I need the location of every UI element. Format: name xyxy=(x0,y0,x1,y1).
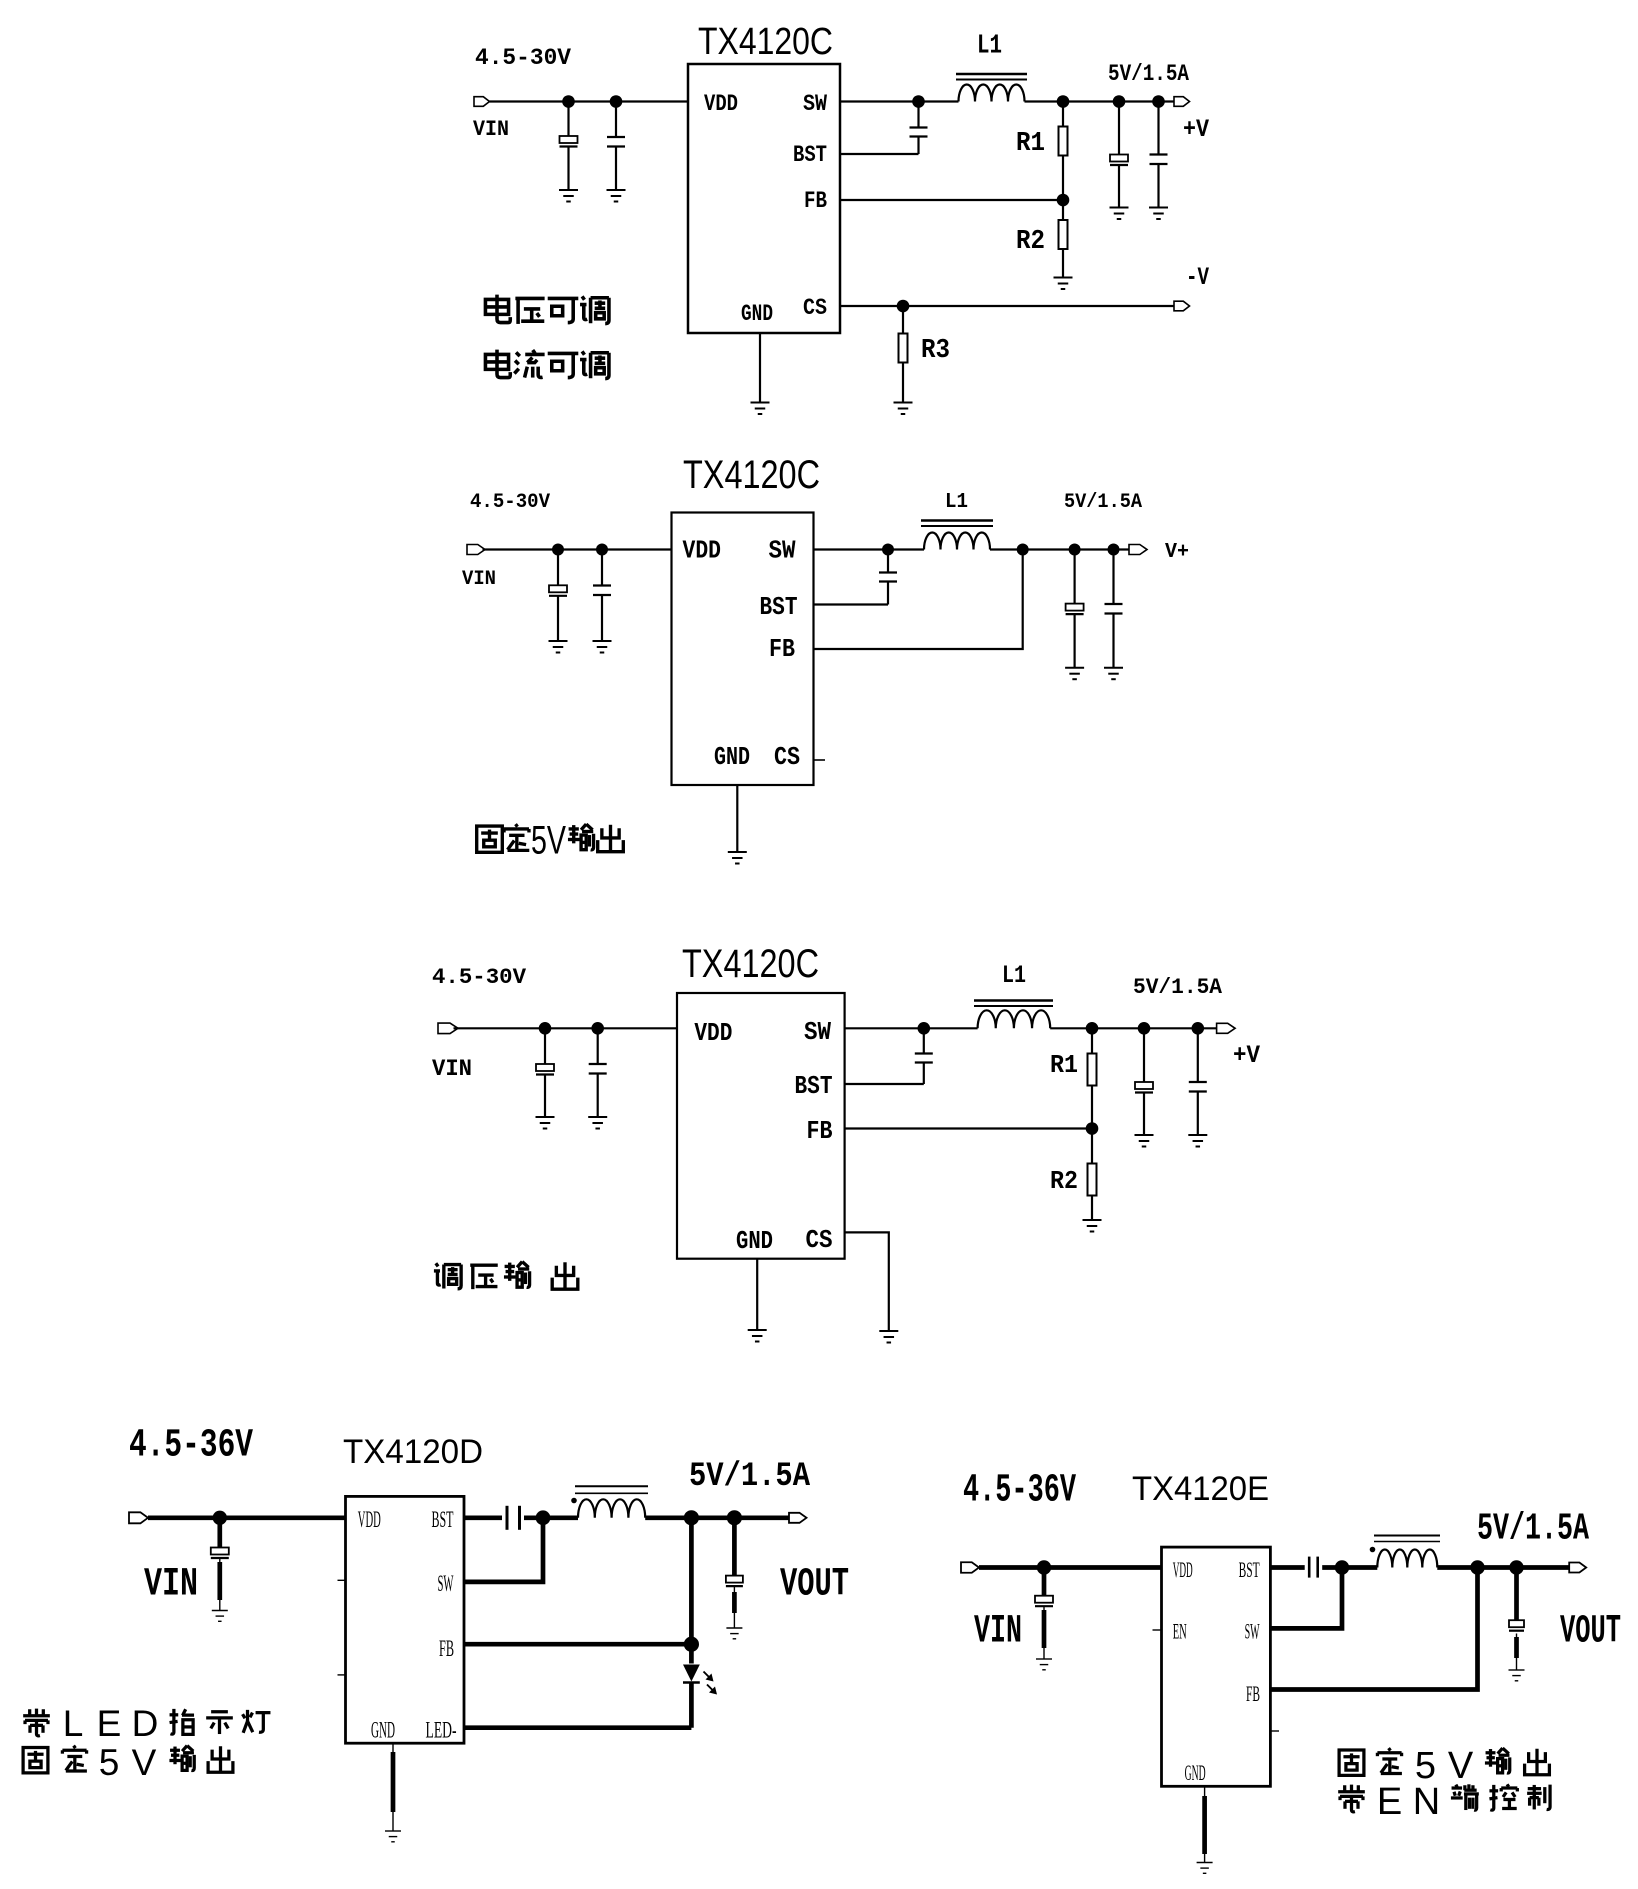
svg-text:5V: 5V xyxy=(531,819,566,863)
circuit 3: junction at R1 top xyxy=(1086,1022,1099,1035)
circuit 1: junction at SW node xyxy=(912,95,925,108)
circuit 3: caption ya xyxy=(470,1265,498,1289)
circuit 3: junction output cap 2 xyxy=(1192,1022,1205,1035)
circuit 1: caption line 1 ya xyxy=(515,298,544,324)
svg-text:VIN: VIN xyxy=(473,117,509,142)
circuit 4: GND pin wire xyxy=(392,1743,394,1831)
circuit 2: ground of output electrolytic capacitor xyxy=(1065,668,1084,680)
svg-text:L1: L1 xyxy=(945,491,968,514)
circuit 1: output port -V xyxy=(1174,301,1190,311)
svg-text:+V: +V xyxy=(1233,1041,1260,1070)
circuit 5: caption line 1 ding xyxy=(1377,1748,1401,1773)
circuit 2: GND pin wire xyxy=(736,785,738,852)
circuit 4: inductor L xyxy=(578,1499,645,1517)
svg-text:FB: FB xyxy=(804,188,827,214)
circuit 5: ground of output capacitor xyxy=(1509,1670,1525,1681)
svg-text:VOUT: VOUT xyxy=(780,1563,849,1608)
circuit 2: FB wire xyxy=(814,550,1023,650)
circuit 2: input wire xyxy=(483,548,672,550)
svg-text:D: D xyxy=(132,1703,159,1744)
circuit 4: caption line 1 shi xyxy=(206,1712,233,1734)
circuit 4: junction output cap xyxy=(727,1510,742,1525)
circuit 4: caption line 1 dai xyxy=(23,1709,50,1736)
svg-text:5V/1.5A: 5V/1.5A xyxy=(1477,1508,1589,1551)
circuit 5: caption line 1 gu xyxy=(1339,1750,1364,1775)
circuit 5: junction at SW node xyxy=(1335,1560,1349,1574)
circuit 1: ground of R3 xyxy=(894,403,913,415)
svg-text:TX4120C: TX4120C xyxy=(698,21,833,63)
svg-text:FB: FB xyxy=(1246,1681,1260,1706)
svg-text:GND: GND xyxy=(1185,1760,1206,1785)
svg-text:L1: L1 xyxy=(1002,961,1026,990)
circuit 4: caption line 1 deng xyxy=(243,1710,271,1733)
svg-text:FB: FB xyxy=(807,1116,833,1146)
circuit 1: resistor R1 xyxy=(1062,102,1064,127)
circuit 5: wire cap to SW junction xyxy=(1322,1565,1342,1570)
circuit 4: caption line 2 ding xyxy=(62,1746,86,1771)
circuit 5: ground of GND pin xyxy=(1197,1863,1213,1874)
circuit 3: junction FB / R1 / R2 xyxy=(1086,1122,1099,1135)
circuit 2: input electrolytic capacitor xyxy=(557,550,559,586)
circuit 3: output ceramic capacitor xyxy=(1197,1028,1199,1082)
circuit 1: ground of GND pin xyxy=(751,403,770,415)
svg-text:VIN: VIN xyxy=(432,1056,472,1082)
circuit 1: junction on input wire 2 xyxy=(610,95,623,108)
circuit 3: inductor L1 core lines xyxy=(974,999,1053,1001)
svg-text:LED-: LED- xyxy=(426,1718,457,1743)
circuit 2: CS pin stub xyxy=(814,759,826,761)
svg-text:4.5-30V: 4.5-30V xyxy=(432,965,527,990)
circuit 1: junction at output cap 2 xyxy=(1152,95,1165,108)
circuit 1: junction at R1 top xyxy=(1057,95,1070,108)
circuit 5: output electrolytic capacitor xyxy=(1514,1568,1519,1621)
circuit 3: input electrolytic capacitor xyxy=(544,1028,546,1064)
circuit 4: ground of input capacitor xyxy=(212,1611,228,1622)
circuit 2: junction input 2 xyxy=(596,544,608,556)
svg-text:4.5-30V: 4.5-30V xyxy=(475,45,571,71)
circuit 5: inductor polarity dot xyxy=(1370,1547,1376,1553)
circuit 3: inductor L1 xyxy=(978,1010,1051,1028)
circuit 5: GND pin wire xyxy=(1204,1786,1206,1862)
circuit 3: junction at SW node xyxy=(918,1022,931,1035)
circuit 5: ground of input capacitor xyxy=(1036,1659,1052,1670)
circuit 4: IC U4 TX4120D box xyxy=(346,1496,465,1743)
circuit 1: junction at output cap 1 xyxy=(1113,95,1126,108)
circuit 5: caption line 2 duan xyxy=(1451,1784,1479,1810)
svg-text:FB: FB xyxy=(769,634,795,664)
circuit 2: caption gu xyxy=(477,826,503,852)
svg-text:TX4120D: TX4120D xyxy=(343,1433,483,1471)
circuit 4: inductor core lines xyxy=(575,1485,648,1487)
circuit 1: caption line 2 dian xyxy=(485,350,510,378)
svg-text:L: L xyxy=(63,1703,84,1744)
circuit 1: output ceramic capacitor xyxy=(1157,102,1159,155)
circuit 5: caption line 2 dai xyxy=(1338,1785,1365,1812)
circuit 4: caption line 2 shu xyxy=(169,1746,194,1771)
circuit 2: junction output cap 2 xyxy=(1108,544,1120,556)
circuit 4: wire cap to SW junction xyxy=(524,1515,543,1520)
circuit 3: ground of input electrolytic capacitor xyxy=(536,1117,555,1129)
circuit 3: ground of R2 xyxy=(1083,1220,1102,1232)
circuit 3: caption diao xyxy=(434,1263,461,1289)
circuit 5: caption line 1 shu xyxy=(1485,1748,1510,1773)
circuit 1: inductor L1 xyxy=(959,85,1025,102)
circuit 3: ground of output electrolytic capacitor xyxy=(1135,1135,1154,1147)
svg-text:VDD: VDD xyxy=(358,1507,381,1532)
circuit 5: caption line 2 zhi xyxy=(1527,1785,1550,1810)
circuit 4: output electrolytic capacitor xyxy=(732,1518,737,1576)
svg-text:VDD: VDD xyxy=(694,1018,732,1048)
circuit 2: caption shu xyxy=(568,824,594,850)
svg-text:VDD: VDD xyxy=(704,91,738,117)
circuit 4: output port xyxy=(789,1513,807,1523)
circuit 5: IC U5 TX4120E box xyxy=(1162,1547,1271,1786)
svg-text:R1: R1 xyxy=(1050,1050,1078,1080)
svg-text:SW: SW xyxy=(1245,1619,1260,1644)
circuit 4: ground of output capacitor xyxy=(726,1628,742,1639)
circuit 4: caption line 1 zhi xyxy=(170,1709,194,1734)
circuit 1: ground of output ceramic capacitor xyxy=(1149,208,1168,220)
circuit 5: junction input xyxy=(1037,1560,1051,1574)
circuit 2: ground of input electrolytic capacitor xyxy=(549,641,568,653)
circuit 4: junction at SW node xyxy=(536,1510,551,1525)
circuit 5: output wire xyxy=(1437,1565,1569,1570)
circuit 5: bootstrap series capacitor xyxy=(1308,1557,1311,1578)
circuit 4: unused pin stub left upper xyxy=(338,1579,346,1581)
svg-text:TX4120E: TX4120E xyxy=(1132,1470,1269,1508)
svg-text:TX4120C: TX4120C xyxy=(683,453,820,497)
circuit 1: caption line 2 ke xyxy=(548,353,579,377)
svg-text:BST: BST xyxy=(760,592,798,622)
circuit 3: output electrolytic capacitor xyxy=(1143,1028,1145,1082)
circuit 1: junction FB / R1 / R2 xyxy=(1057,194,1070,207)
circuit 1: SW output wire xyxy=(840,100,959,102)
circuit 2: BST wire xyxy=(814,603,889,605)
svg-text:4.5-30V: 4.5-30V xyxy=(470,491,550,514)
svg-text:5V/1.5A: 5V/1.5A xyxy=(1108,61,1189,87)
circuit 1: ground of input ceramic capacitor xyxy=(607,190,626,202)
svg-text:4.5-36V: 4.5-36V xyxy=(963,1469,1076,1514)
svg-text:VIN: VIN xyxy=(462,568,496,591)
circuit 4: LED light arrow 1 xyxy=(704,1672,712,1680)
circuit 3: ground of output ceramic capacitor xyxy=(1188,1135,1207,1147)
circuit 1: input electrolytic capacitor xyxy=(567,102,569,137)
circuit 3: output wire xyxy=(1050,1027,1216,1029)
circuit 1: caption line 1 dian xyxy=(485,295,510,323)
circuit 4: input electrolytic capacitor xyxy=(217,1518,222,1548)
circuit 2: bootstrap capacitor xyxy=(887,550,889,573)
svg-text:E: E xyxy=(97,1703,122,1744)
circuit 2: junction FB tap xyxy=(1017,544,1029,556)
svg-text:SW: SW xyxy=(438,1571,454,1596)
circuit 4: LED cathode wire xyxy=(689,1684,694,1728)
svg-text:L1: L1 xyxy=(977,32,1002,62)
svg-text:SW: SW xyxy=(804,1017,831,1047)
circuit 1: caption line 1 ke xyxy=(548,298,579,322)
circuit 1: junction at CS node xyxy=(897,300,910,313)
circuit 5: unused pin stub right xyxy=(1270,1730,1279,1732)
svg-text:N: N xyxy=(1413,1781,1440,1823)
circuit 1: FB wire xyxy=(840,199,1063,201)
circuit 2: inductor L1 xyxy=(924,533,990,550)
circuit 2: input ceramic capacitor xyxy=(601,550,603,586)
circuit 4: bootstrap series capacitor xyxy=(506,1506,509,1530)
circuit 5: caption line 1 chu xyxy=(1525,1749,1550,1775)
circuit 3: output port +V xyxy=(1217,1023,1236,1033)
svg-text:-V: -V xyxy=(1186,263,1209,292)
circuit 1: input ceramic capacitor xyxy=(615,102,617,138)
svg-text:V: V xyxy=(1448,1745,1474,1787)
circuit 3: input ceramic capacitor xyxy=(597,1028,599,1064)
circuit 1: resistor R3 xyxy=(902,306,904,334)
circuit 5: inductor L xyxy=(1377,1550,1437,1568)
circuit 3: bootstrap capacitor xyxy=(923,1028,925,1053)
circuit 4: caption line 2 chu xyxy=(208,1746,233,1772)
circuit 4: junction output / LED branch xyxy=(684,1510,699,1525)
circuit 5: input wire xyxy=(979,1565,1162,1570)
svg-text:SW: SW xyxy=(769,536,796,566)
svg-text:BST: BST xyxy=(432,1507,454,1532)
circuit 5: SW wire xyxy=(1270,1568,1342,1629)
svg-text:EN: EN xyxy=(1173,1619,1187,1644)
circuit 3: ground of GND pin xyxy=(748,1330,767,1342)
circuit 2: ground of GND pin xyxy=(728,852,747,864)
circuit 1: ground of output electrolytic capacitor xyxy=(1110,208,1129,220)
circuit 1: input port VIN xyxy=(474,97,490,107)
circuit 4: junction input xyxy=(213,1511,227,1525)
circuit 1: GND pin wire xyxy=(759,333,761,403)
circuit 1: output wire xyxy=(1025,100,1175,102)
svg-text:BST: BST xyxy=(793,142,827,168)
circuit 4: BST wire xyxy=(464,1515,502,1520)
svg-text:V+: V+ xyxy=(1165,541,1189,564)
circuit 5: junction FB tap xyxy=(1470,1560,1484,1574)
svg-text:CS: CS xyxy=(774,742,800,772)
svg-text:VDD: VDD xyxy=(683,536,722,566)
svg-text:R3: R3 xyxy=(921,336,950,366)
circuit 2: ground of output ceramic capacitor xyxy=(1104,668,1123,680)
svg-text:R1: R1 xyxy=(1016,129,1045,159)
circuit 3: CS wire xyxy=(845,1232,889,1331)
svg-text:5V/1.5A: 5V/1.5A xyxy=(689,1458,811,1496)
circuit 2: output wire xyxy=(990,548,1129,550)
svg-text:SW: SW xyxy=(803,91,827,117)
circuit 4: unused pin stub left lower xyxy=(338,1674,346,1676)
circuit 1: output port +V xyxy=(1174,97,1190,107)
circuit 5: inductor wire left xyxy=(1342,1565,1377,1570)
svg-text:CS: CS xyxy=(803,295,827,321)
circuit 4: input port xyxy=(129,1512,148,1523)
circuit 4: LED cathode bar xyxy=(683,1681,700,1684)
circuit 4: caption line 2 gu xyxy=(23,1747,48,1772)
circuit 3: input port xyxy=(438,1023,458,1034)
circuit 4: inductor wire left xyxy=(543,1515,578,1520)
svg-text:CS: CS xyxy=(806,1225,833,1255)
circuit 3: junction input 1 xyxy=(539,1022,552,1035)
circuit 3: caption chu xyxy=(552,1262,578,1289)
circuit 4: LED light arrow 2 xyxy=(707,1685,715,1693)
svg-text:GND: GND xyxy=(741,301,773,327)
circuit 1: caption line 1 diao xyxy=(580,296,609,323)
circuit 2: inductor L1 core lines xyxy=(921,519,993,521)
circuit 5: caption line 2 kong xyxy=(1489,1784,1517,1810)
circuit 5: inductor core lines xyxy=(1374,1535,1440,1537)
svg-text:VOUT: VOUT xyxy=(1560,1610,1621,1655)
circuit 5: EN pin stub xyxy=(1153,1629,1162,1631)
circuit 3: BST wire xyxy=(845,1083,924,1085)
circuit 4: ground of GND pin xyxy=(385,1831,401,1842)
circuit 1: BST wire xyxy=(840,153,919,155)
circuit 5: output port xyxy=(1569,1563,1586,1573)
circuit 1: bootstrap capacitor xyxy=(917,102,919,128)
circuit 2: junction output cap 1 xyxy=(1069,544,1081,556)
circuit 4: LED D1 xyxy=(683,1665,700,1682)
circuit 1: junction on input wire xyxy=(562,95,575,108)
circuit 3: IC U3 TX4120C box xyxy=(677,993,845,1259)
circuit 2: ground of input ceramic capacitor xyxy=(593,641,612,653)
circuit 3: caption shu xyxy=(504,1262,530,1288)
circuit 2: input port xyxy=(467,545,485,555)
svg-text:5: 5 xyxy=(99,1742,120,1783)
circuit 3: junction output cap 1 xyxy=(1138,1022,1151,1035)
circuit 4: junction FB / LED xyxy=(684,1637,699,1652)
circuit 4: LED- wire xyxy=(464,1725,691,1730)
svg-text:5V/1.5A: 5V/1.5A xyxy=(1064,491,1142,514)
svg-text:VIN: VIN xyxy=(974,1610,1022,1655)
circuit 1: ground of R2 xyxy=(1054,278,1073,290)
svg-text:GND: GND xyxy=(736,1226,773,1256)
circuit 2: IC U2 TX4120C box xyxy=(672,513,814,786)
svg-text:R2: R2 xyxy=(1050,1166,1078,1196)
circuit 2: output port V+ xyxy=(1129,545,1147,555)
circuit 2: output electrolytic capacitor xyxy=(1073,550,1075,604)
svg-text:GND: GND xyxy=(371,1718,395,1743)
svg-text:R2: R2 xyxy=(1016,227,1045,257)
svg-text:E: E xyxy=(1377,1781,1402,1823)
circuit 3: ground of input ceramic capacitor xyxy=(588,1117,607,1129)
circuit 1: inductor L1 core lines xyxy=(956,73,1027,75)
circuit 2: caption ding xyxy=(504,824,529,850)
circuit 4: output wire xyxy=(645,1515,789,1520)
svg-text:GND: GND xyxy=(714,742,750,772)
circuit 1: IC U1 TX4120C box xyxy=(688,64,840,333)
circuit 2: caption chu xyxy=(598,825,624,852)
circuit 3: resistor R1 xyxy=(1091,1028,1093,1053)
circuit 4: FB wire xyxy=(464,1642,691,1647)
circuit 2: junction at SW node xyxy=(882,544,894,556)
circuit 1: resistor R2 xyxy=(1062,200,1064,220)
circuit 4: inductor polarity dot xyxy=(571,1498,577,1504)
circuit 2: junction input 1 xyxy=(552,544,564,556)
circuit 4: LED branch wire xyxy=(689,1518,694,1664)
circuit 5: BST wire xyxy=(1270,1565,1304,1570)
circuit 1: output electrolytic capacitor xyxy=(1118,102,1120,155)
svg-text:VDD: VDD xyxy=(1173,1557,1193,1582)
circuit 3: input wire xyxy=(454,1027,678,1029)
svg-text:FB: FB xyxy=(439,1636,454,1661)
circuit 3: SW output wire xyxy=(845,1027,978,1029)
circuit 5: FB wire xyxy=(1270,1568,1477,1690)
circuit 1: caption line 2 liu xyxy=(514,350,544,378)
circuit 3: GND pin wire xyxy=(756,1259,758,1330)
circuit 5: junction output cap xyxy=(1509,1560,1523,1574)
circuit 1: ground of input electrolytic capacitor xyxy=(559,190,578,202)
circuit 1: input wire xyxy=(490,100,689,102)
svg-text:BST: BST xyxy=(1239,1557,1260,1582)
circuit 3: FB wire xyxy=(845,1127,1092,1129)
circuit 5: input electrolytic capacitor xyxy=(1042,1568,1047,1596)
circuit 3: ground of CS xyxy=(879,1331,898,1343)
circuit 3: junction input 2 xyxy=(591,1022,604,1035)
circuit 4: input wire xyxy=(148,1515,346,1520)
circuit 2: output ceramic capacitor xyxy=(1112,550,1114,605)
circuit 2: SW output wire xyxy=(814,548,925,550)
svg-text:V: V xyxy=(132,1742,157,1783)
svg-text:TX4120C: TX4120C xyxy=(682,942,819,986)
svg-text:+V: +V xyxy=(1183,115,1209,144)
svg-text:4.5-36V: 4.5-36V xyxy=(129,1424,253,1469)
svg-text:5V/1.5A: 5V/1.5A xyxy=(1133,975,1223,1000)
circuit 3: resistor R2 xyxy=(1091,1129,1093,1164)
circuit 5: input port xyxy=(961,1562,979,1573)
svg-text:BST: BST xyxy=(795,1071,833,1101)
svg-text:VIN: VIN xyxy=(144,1563,198,1608)
circuit 4: SW wire xyxy=(464,1518,543,1582)
circuit 1: caption line 2 diao xyxy=(580,351,609,378)
circuit 1: CS wire xyxy=(840,305,1174,307)
